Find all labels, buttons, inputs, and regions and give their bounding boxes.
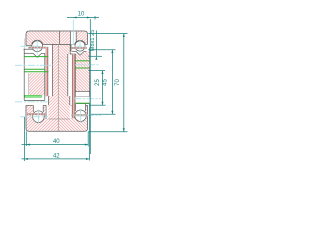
svg-text:M8x1 25: M8x1 25 xyxy=(90,30,96,52)
cage top-right flange xyxy=(72,47,87,49)
centerline top-right ball axis xyxy=(79,40,81,55)
svg-text:25: 25 xyxy=(95,79,101,86)
extension line 10 right xyxy=(89,19,91,154)
tick right of dim 10 xyxy=(94,16,96,20)
ball top-left pocket arc xyxy=(32,40,43,44)
right module body xyxy=(75,48,89,104)
dim 42 xyxy=(22,153,90,160)
green seal line right 1 xyxy=(75,60,89,62)
bottom-right ball channel xyxy=(75,104,85,111)
extension line 40 left xyxy=(25,132,27,147)
centerline left module upper xyxy=(15,64,53,66)
cage bottom-right flange xyxy=(72,114,88,116)
green seal line left 2 xyxy=(24,68,44,70)
module lip left xyxy=(24,48,34,50)
extension line 45 bottom xyxy=(91,113,116,115)
centerline left module lower xyxy=(15,101,50,103)
centerline right module upper xyxy=(75,64,99,66)
extension line thread top xyxy=(88,33,127,35)
centerline top-right ball row xyxy=(75,45,87,47)
extension line 25 top xyxy=(88,70,105,72)
centerline top-left ball row xyxy=(21,45,42,47)
dim M8x1 25 thread depth xyxy=(90,30,98,60)
extension line 45 top xyxy=(88,49,115,51)
green seal line left 3 xyxy=(24,71,48,73)
centerline right module lower xyxy=(74,98,101,100)
slot left of foot xyxy=(46,105,48,119)
extension line bottom right xyxy=(88,131,127,133)
svg-text:42: 42 xyxy=(53,153,60,159)
cage right column xyxy=(72,54,74,118)
module seat left (V) xyxy=(24,53,45,57)
centerline bottom-left ball row xyxy=(20,116,48,118)
dim 70 xyxy=(115,34,125,132)
foot bottom line xyxy=(48,118,69,120)
ball top-right xyxy=(75,41,85,51)
centerline top-left ball axis xyxy=(36,40,38,55)
extension line M8 bottom xyxy=(88,55,102,57)
center shaft xyxy=(48,44,75,119)
extension line 40 right xyxy=(87,132,89,147)
cage top-left flange xyxy=(28,47,45,49)
green seal line left 1 xyxy=(24,56,48,58)
centerline bottom-left ball axis xyxy=(37,110,39,125)
left module outer wall line xyxy=(24,39,26,50)
ball top-right pocket arc xyxy=(75,40,86,44)
dim 45 xyxy=(103,50,114,115)
dim 25 xyxy=(95,71,103,106)
extension line 42 left xyxy=(24,117,26,161)
thread hole M8 xyxy=(70,32,76,45)
centerline bottom-right ball axis xyxy=(80,109,82,124)
dim 10 xyxy=(67,12,99,19)
extension line 25 bottom xyxy=(90,104,106,106)
left module body xyxy=(24,49,45,100)
cage bottom-left flange xyxy=(26,113,45,115)
svg-text:45: 45 xyxy=(103,79,109,86)
slot right of foot xyxy=(70,105,72,118)
cage left column xyxy=(46,47,48,96)
top block xyxy=(26,31,88,46)
bottom block xyxy=(26,105,88,131)
dim 40 xyxy=(22,139,89,145)
green band left lower xyxy=(25,95,42,97)
ball bottom-right xyxy=(75,110,86,121)
green seal line right 3 xyxy=(75,102,89,104)
svg-text:40: 40 xyxy=(53,139,60,145)
svg-text:10: 10 xyxy=(78,12,85,18)
extension line 42 right xyxy=(88,104,90,161)
ball bottom-left xyxy=(33,111,45,123)
centerline bottom-right ball row xyxy=(74,115,101,117)
ball top-left xyxy=(32,41,43,52)
bottom-left ball channel xyxy=(33,105,43,113)
module seat right (V) xyxy=(71,44,87,55)
centerline vertical gray xyxy=(57,44,59,131)
centerline thread hole axis xyxy=(72,20,74,45)
svg-text:70: 70 xyxy=(115,79,121,86)
green seal line right 2 xyxy=(75,67,89,69)
